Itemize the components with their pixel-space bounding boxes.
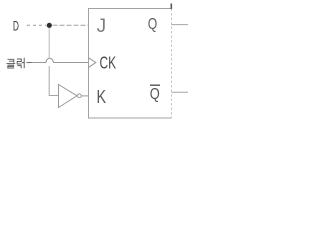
svg-text:J: J	[97, 16, 107, 37]
Q-bar overline	[150, 84, 160, 86]
wire D to junction (dashed)	[27, 24, 46, 26]
wire Q output	[172, 24, 189, 26]
box right edge (faint)	[171, 9, 173, 119]
tick top-right corner	[170, 4, 172, 10]
junction node dot	[47, 23, 52, 28]
wire Q-bar output	[172, 91, 189, 93]
clock input triangle symbol	[89, 58, 96, 68]
flip-flop box U2	[89, 9, 172, 119]
inverter U1 triangle	[59, 85, 78, 108]
svg-text:CK: CK	[100, 53, 117, 73]
vertical wire from junction	[48, 28, 50, 59]
clock wire to CK with crossover hop	[27, 62, 47, 64]
svg-text:K: K	[97, 86, 107, 107]
wire inverter to K input	[82, 95, 89, 97]
svg-text:D: D	[13, 20, 19, 35]
inverter bubble	[78, 94, 82, 98]
clock label 클럭 (drawn)	[7, 58, 25, 68]
svg-text:Q: Q	[148, 16, 158, 33]
svg-text:Q: Q	[150, 86, 160, 103]
wire junction to J input	[53, 24, 89, 26]
